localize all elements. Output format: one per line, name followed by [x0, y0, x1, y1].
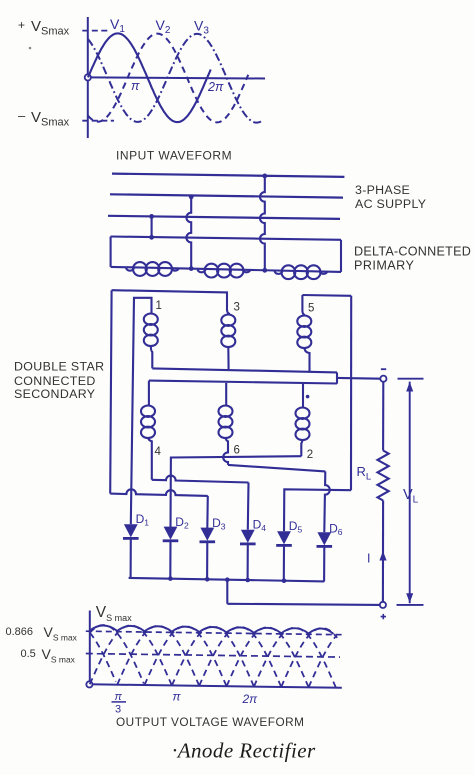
wire tap A (line3 to primary): [151, 216, 153, 237]
svg-text:3-PHASE: 3-PHASE: [355, 183, 410, 197]
svg-text:+: +: [18, 18, 25, 32]
svg-text:4: 4: [155, 446, 162, 458]
wire right edge to D5: [284, 489, 351, 531]
VL dimension line: [409, 382, 411, 604]
svg-text:3: 3: [234, 302, 240, 314]
wire winding-5 top to right edge: [302, 294, 351, 297]
svg-text:INPUT WAVEFORM: INPUT WAVEFORM: [116, 149, 232, 163]
svg-text:2π: 2π: [207, 80, 224, 94]
diode D6: [317, 532, 331, 545]
diode D4: [241, 530, 255, 543]
output 0.5 dashed level: [86, 654, 340, 658]
output dashed phase arch 0: [90, 633, 116, 682]
input plot origin circle: [85, 74, 91, 80]
wire star bus right end: [336, 372, 338, 383]
wire load branch lower: [382, 501, 384, 602]
diode D3: [200, 528, 214, 541]
wire D3 cathode lead: [206, 542, 208, 580]
svg-text:SECONDARY: SECONDARY: [14, 387, 95, 401]
svg-text:0.866: 0.866: [6, 626, 34, 638]
junction dot cathode bus: [245, 578, 250, 583]
inductor primary winding P3: [282, 265, 296, 279]
output dashed phase arch 9: [281, 628, 337, 687]
resistor RL: [378, 451, 389, 501]
wire line-A left-edge to D3 with hops: [110, 489, 208, 496]
input plot y-axis: [87, 17, 89, 138]
wire D4 anode lead: [247, 483, 250, 530]
wire winding-2 bottom lead: [301, 439, 302, 456]
wire D4 cathode lead: [247, 544, 249, 580]
input plot x-axis: [88, 77, 265, 78]
wire supply line 2: [110, 194, 343, 197]
svg-text:2: 2: [307, 449, 313, 461]
wire positive tap to + terminal: [227, 604, 380, 605]
svg-text:π: π: [173, 690, 182, 704]
wire star bus to - terminal: [337, 377, 381, 380]
wire load branch upper: [382, 382, 384, 451]
current arrow I: [379, 551, 386, 561]
svg-text:DOUBLE STAR: DOUBLE STAR: [14, 359, 104, 373]
wire D6 anode lead with hop over W5 row: [324, 471, 329, 532]
wire D6 cathode lead: [323, 546, 325, 581]
wire D2 cathode lead: [169, 541, 171, 579]
wire D1 cathode lead: [130, 538, 132, 578]
inductor primary winding P2: [205, 264, 219, 278]
stray speck: [29, 47, 32, 50]
VL top bar: [398, 378, 424, 380]
output rectified envelope: [90, 625, 334, 633]
junction dot tap C top: [262, 174, 267, 179]
junction dot tap A bottom: [149, 235, 154, 240]
polarity dot winding 2: [306, 395, 310, 399]
output dashed phase arch 1: [90, 625, 144, 684]
inductor secondary winding 5: [297, 316, 311, 327]
junction dot cathode bus: [282, 578, 287, 583]
wire D3 anode lead: [206, 496, 209, 529]
wire cathode bus: [129, 578, 325, 582]
wire winding-6 top lead: [225, 383, 227, 406]
junction dot cathode bus: [205, 577, 210, 582]
wire row W4-to-D4 with hop over D2 lead: [152, 476, 249, 483]
output plot x-axis: [90, 684, 342, 688]
junction dot cathode bus: [225, 577, 230, 582]
wire supply line 1: [112, 174, 344, 177]
label plus sign: [381, 614, 386, 619]
svg-text:AC SUPPLY: AC SUPPLY: [355, 197, 426, 211]
junction dot tap B top: [189, 194, 194, 199]
wire winding-3 entry jog: [227, 310, 230, 315]
wire primary box left: [110, 237, 112, 267]
VL arrowhead up: [406, 382, 413, 392]
output dashed phase arch 6: [199, 627, 281, 687]
output dashed phase arch 7: [227, 627, 309, 687]
wire winding-5 top lead: [302, 295, 305, 315]
wire winding-4 top lead: [148, 381, 150, 406]
junction dot cathode bus: [168, 576, 173, 581]
wire secondary right edge: [350, 296, 352, 490]
svg-text:·Anode Rectifier: ·Anode Rectifier: [172, 739, 316, 763]
output dashed phase arch 3: [117, 626, 199, 686]
label minus sign: [381, 368, 386, 370]
diode D2: [164, 527, 178, 540]
svg-text:0.5: 0.5: [21, 648, 36, 660]
svg-text:6: 6: [234, 445, 240, 457]
wire star bus bottom: [149, 381, 337, 384]
wire tap C (line1 to primary) with hops: [260, 176, 265, 271]
output dashed phase arch 8: [254, 628, 336, 688]
wire star bus top: [152, 368, 337, 372]
wire winding-4 bottom lead: [148, 437, 152, 480]
+Vsmax dashed level tick: [82, 30, 109, 32]
inductor secondary winding 2: [296, 408, 310, 419]
VL arrowhead down: [406, 593, 413, 603]
output dashed phase arch 10: [309, 636, 337, 688]
output 0.866 dashed level: [86, 631, 342, 635]
junction dot tap C bottom: [262, 268, 267, 273]
wire primary box right: [340, 240, 342, 272]
wire winding-1 bottom lead: [151, 345, 153, 368]
inductor secondary winding 4: [141, 406, 155, 417]
svg-text:π: π: [131, 79, 140, 93]
wire winding-5 bottom jog: [304, 347, 309, 372]
diode D1: [124, 524, 138, 537]
svg-text:PRIMARY: PRIMARY: [354, 258, 414, 272]
wire row W6-to-D6: [228, 465, 325, 472]
diode D5: [277, 531, 291, 544]
wire winding-6 bottom lead with hop over row C: [223, 437, 228, 465]
svg-text:1: 1: [156, 300, 162, 312]
output dashed phase arch 2: [90, 625, 172, 685]
wire positive tap down: [226, 580, 228, 604]
wire secondary top line: [112, 290, 227, 309]
wire winding-1 top jog: [134, 298, 152, 315]
inductor primary winding P1: [133, 262, 147, 276]
wire winding-1 to D1 (long vertical): [131, 298, 134, 524]
wire primary box top: [111, 237, 341, 240]
wire secondary left edge: [110, 290, 111, 493]
junction dot tap A top: [149, 214, 154, 219]
output dashed phase arch 4: [145, 626, 227, 686]
inductor secondary winding 6: [219, 406, 233, 417]
-Vsmax dashed level tick: [82, 120, 114, 122]
svg-text:CONNECTED: CONNECTED: [14, 374, 96, 388]
svg-text:5: 5: [308, 303, 314, 315]
wire winding-2 top lead: [302, 383, 304, 407]
svg-text:2π: 2π: [242, 692, 259, 706]
wire supply line 3: [108, 216, 340, 219]
VL bottom bar: [397, 604, 424, 606]
terminal - (minus): [380, 376, 386, 382]
output plot y-axis: [89, 611, 91, 685]
waveform V3 (dash-dot sine): [88, 34, 262, 123]
output dashed phase arch 5: [172, 627, 254, 687]
svg-text:OUTPUT VOLTAGE WAVEFORM: OUTPUT VOLTAGE WAVEFORM: [116, 715, 304, 729]
wire winding-3 bottom lead: [227, 346, 229, 370]
junction dot tap B bottom: [189, 266, 194, 271]
inductor secondary winding 3: [221, 315, 235, 326]
inductor secondary winding 1: [144, 314, 158, 325]
svg-text:I: I: [367, 552, 370, 566]
wire primary bottom: [111, 267, 341, 272]
svg-text:–: –: [18, 108, 26, 123]
svg-text:DELTA-CONNETED: DELTA-CONNETED: [354, 245, 471, 259]
wire row W2-to-D2: [171, 456, 302, 527]
wire tap B (line2 to primary) with hops: [186, 197, 191, 270]
output plot origin circle: [86, 681, 92, 687]
svg-text:3: 3: [115, 704, 121, 716]
wire D5 cathode lead: [283, 545, 285, 580]
terminal + (plus): [380, 602, 386, 608]
waveform V2 (dashed sine): [88, 34, 248, 123]
waveform V1 (solid sine): [88, 33, 211, 122]
